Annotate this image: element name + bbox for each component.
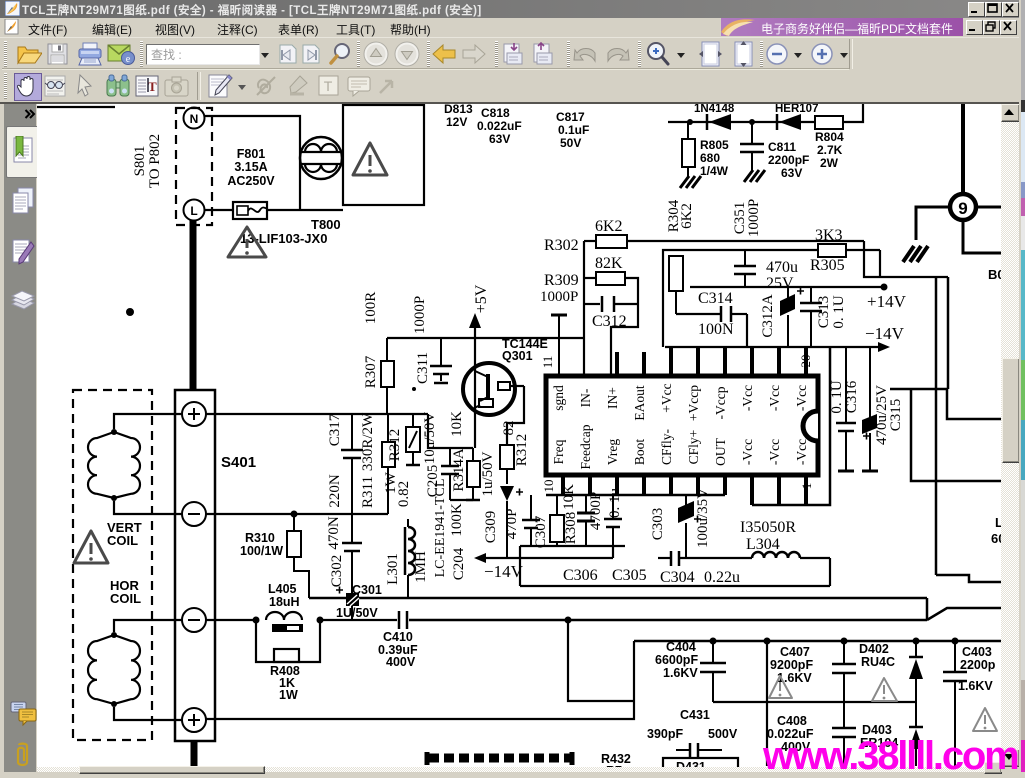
wire -rail y514 <box>206 513 388 515</box>
wire node9 right <box>976 206 1001 209</box>
svg-text:-Vcc: -Vcc <box>767 439 782 465</box>
diode 1N4148 <box>694 103 735 130</box>
node N terminal <box>184 108 205 129</box>
svg-text:100/1W: 100/1W <box>240 544 283 558</box>
wire y575 branch <box>936 575 1001 582</box>
svg-text:0.1uF: 0.1uF <box>558 123 589 137</box>
wire +rail y414 <box>206 413 428 415</box>
svg-text:2W: 2W <box>820 156 839 170</box>
ground (C811) <box>744 170 765 182</box>
fuse F801 <box>233 202 268 219</box>
junction <box>710 638 717 645</box>
wire inner box left <box>663 250 818 347</box>
undo <box>573 45 598 63</box>
-14V arrow (below IC) <box>474 546 613 581</box>
svg-text:1N4148: 1N4148 <box>694 104 735 115</box>
svg-text:C818: C818 <box>481 106 510 120</box>
svg-text:-Vcc: -Vcc <box>767 385 782 411</box>
svg-text:1.6KV: 1.6KV <box>958 679 993 693</box>
print <box>77 42 103 66</box>
svg-text:+5V: +5V <box>473 284 490 313</box>
svg-text:Boot: Boot <box>632 439 647 466</box>
svg-text:2200pF: 2200pF <box>768 153 809 167</box>
svg-text:-Vcc: -Vcc <box>740 439 755 465</box>
wire to node 9 <box>961 104 965 195</box>
capacitor C302 470N <box>326 516 362 593</box>
pages <box>11 187 35 215</box>
vertical deflection coil <box>88 429 140 501</box>
+14V rail <box>690 284 907 312</box>
svg-text:C408: C408 <box>777 714 807 728</box>
svg-text:R302: R302 <box>544 237 579 254</box>
capacitor C315 470u/25V <box>862 347 904 471</box>
svg-text:63V: 63V <box>781 166 802 180</box>
svg-text:6K2: 6K2 <box>595 218 623 235</box>
svg-text:0.022uF: 0.022uF <box>477 119 522 133</box>
svg-text:C309: C309 <box>483 511 499 544</box>
svg-text:sgnd: sgnd <box>551 385 566 411</box>
svg-text:R307: R307 <box>363 355 379 388</box>
wire node9 down-right <box>963 220 1001 253</box>
resistor 6K2 (R302 row) <box>584 218 864 248</box>
wire y607 to edge <box>927 608 1001 620</box>
wire jog y389 <box>890 389 1001 419</box>
resistor R310 100/1W <box>240 514 309 598</box>
zoom mag <box>645 41 671 67</box>
svg-text:4700P: 4700P <box>588 492 604 530</box>
label S801 TO P802 <box>132 134 163 188</box>
S401 pin + <box>182 402 206 426</box>
resistor R314A 10K <box>449 411 480 500</box>
svg-text:C315: C315 <box>888 399 904 432</box>
svg-text:C407: C407 <box>780 645 810 659</box>
svg-text:F801: F801 <box>237 147 266 161</box>
svg-text:Feedcap: Feedcap <box>578 424 593 469</box>
svg-text:-Vcc: -Vcc <box>740 385 755 411</box>
svg-text:100N: 100N <box>698 321 734 338</box>
connector S401 strip <box>175 390 215 741</box>
labels C306 C305 C304 0.22u <box>563 567 740 586</box>
svg-text:2200p: 2200p <box>960 658 996 672</box>
capacitor C307 470P <box>504 495 549 548</box>
search mag <box>329 42 353 66</box>
svg-text:400V: 400V <box>386 655 416 669</box>
wire fuse to degauss box <box>267 209 343 211</box>
svg-text:0. 1U: 0. 1U <box>831 295 847 329</box>
svg-text:C311: C311 <box>415 352 431 384</box>
capacitor C312 <box>584 296 638 376</box>
wire R804 up <box>843 104 863 122</box>
IC top pin stubs <box>617 347 806 376</box>
svg-text:IN-: IN- <box>578 388 593 407</box>
svg-text:-Vcc: -Vcc <box>794 385 809 411</box>
svg-text:25V: 25V <box>766 275 794 292</box>
svg-text:82: 82 <box>501 421 517 436</box>
label C351 1000P rotated <box>732 199 762 237</box>
svg-text:680: 680 <box>700 151 720 165</box>
svg-text:20: 20 <box>798 355 813 368</box>
save <box>47 43 68 65</box>
svg-text:9: 9 <box>958 199 967 218</box>
op-amp/deflection IC U301 body <box>546 376 818 475</box>
svg-text:C410: C410 <box>383 630 413 644</box>
svg-text:Freq: Freq <box>551 439 566 464</box>
junction <box>253 617 260 624</box>
resistor R312 1W 0.82 <box>383 414 420 507</box>
svg-text:R311: R311 <box>360 476 376 508</box>
svg-text:-Vcc: -Vcc <box>794 439 809 465</box>
svg-text:L405: L405 <box>268 582 297 596</box>
IC bottom pin stubs <box>563 475 806 505</box>
capacitor C351 <box>734 250 756 287</box>
label R408 1K 1W <box>270 664 300 702</box>
svg-text:100u/35V: 100u/35V <box>695 488 711 548</box>
svg-text:1/4W: 1/4W <box>700 164 729 178</box>
svg-text:470N: 470N <box>326 516 342 550</box>
svg-text:C306: C306 <box>563 567 598 584</box>
resistor R311 330R/2W <box>360 412 395 514</box>
svg-text:CFly+: CFly+ <box>686 430 701 465</box>
wire Q301 emitter to R312 <box>507 386 524 445</box>
connector S801 dashed box <box>176 108 212 225</box>
up round <box>363 41 390 68</box>
wire mid rail y702 <box>713 701 916 703</box>
svg-text:N: N <box>190 112 199 126</box>
svg-text:C304: C304 <box>660 569 695 586</box>
highlighter (disabled) <box>286 74 309 97</box>
resistor R804 2.7K 2W <box>815 116 844 170</box>
ground (R805) <box>680 176 701 188</box>
label HOR COIL <box>110 578 141 606</box>
capacitor C317 220N <box>327 413 363 543</box>
degauss circuit box <box>343 105 424 205</box>
svg-text:COIL: COIL <box>110 591 141 606</box>
svg-text:T800: T800 <box>311 217 341 232</box>
svg-text:+Vccp: +Vccp <box>686 385 701 421</box>
svg-text:−14V: −14V <box>865 324 905 343</box>
thick dashed bus <box>427 752 573 765</box>
wire feed right-margin inner <box>879 250 881 277</box>
resistor R307 100R <box>363 292 394 414</box>
diode HER107 <box>775 103 818 130</box>
capacitor C311 1000P <box>412 296 452 384</box>
IC pin labels bottom <box>551 424 809 469</box>
resistor R305 3K3 <box>810 227 880 274</box>
wire L to fuse <box>204 209 233 211</box>
svg-text:10: 10 <box>541 480 556 493</box>
wire return y598 <box>309 597 927 600</box>
camera (disabled) <box>164 75 189 97</box>
capacitor C316 0.1U <box>829 347 860 471</box>
attach (disabled) <box>254 74 278 98</box>
svg-text:S801: S801 <box>132 146 148 177</box>
wire x927 stub <box>926 598 929 620</box>
node L terminal <box>184 200 205 221</box>
capacitor C403 2200p 1.6KV <box>943 641 996 766</box>
svg-text:R309: R309 <box>544 272 579 289</box>
wire to C410 <box>320 619 397 621</box>
wire block left edge <box>519 546 521 586</box>
label F801 3.15A AC250V <box>227 147 275 188</box>
junction <box>565 617 572 624</box>
svg-text:9200pF: 9200pF <box>770 658 813 672</box>
resistor 82K (R309 row) <box>584 255 638 304</box>
svg-text:1u/50V: 1u/50V <box>480 451 496 496</box>
bookmarks (selected) <box>6 126 38 178</box>
textbox (disabled) <box>317 74 340 97</box>
svg-text:T: T <box>324 78 333 94</box>
back <box>432 44 457 64</box>
svg-text:0.22u: 0.22u <box>704 569 740 586</box>
wire drop from junction <box>568 620 634 701</box>
resistor R304 <box>669 256 683 314</box>
wire below-IC rail <box>546 494 725 497</box>
snapshot1 <box>501 41 528 67</box>
svg-text:330R/2W: 330R/2W <box>360 412 376 471</box>
inductor L301 1MH <box>385 519 429 598</box>
capacitor C301 1U/50V <box>336 587 359 621</box>
junction <box>749 119 755 125</box>
svg-text:R305: R305 <box>810 257 845 274</box>
svg-text:C312: C312 <box>592 313 627 330</box>
svg-text:50V: 50V <box>560 136 581 150</box>
down round <box>394 41 421 68</box>
resistor R312 82 <box>500 421 530 485</box>
wire pin1-3 bracket <box>752 347 830 505</box>
wire feed right-margin outer <box>864 241 948 277</box>
resistor R805 680 1/4W <box>682 122 729 178</box>
zoom out <box>766 43 789 66</box>
svg-text:C431: C431 <box>680 708 710 722</box>
svg-text:2.7K: 2.7K <box>817 143 843 157</box>
warning triangle (D402) <box>872 678 897 701</box>
junction <box>913 638 920 645</box>
forward <box>461 44 486 64</box>
svg-text:C317: C317 <box>327 413 343 446</box>
svg-text:C301: C301 <box>352 583 382 597</box>
svg-text:L304: L304 <box>746 536 780 553</box>
svg-text:C307: C307 <box>533 515 549 548</box>
svg-text:RU4C: RU4C <box>861 655 895 669</box>
svg-text:R314A: R314A <box>451 448 467 492</box>
svg-text:R312: R312 <box>514 434 530 467</box>
signature <box>11 238 36 266</box>
svg-text:C314: C314 <box>698 290 733 307</box>
transistor Q301 TC144E <box>463 328 524 448</box>
binoculars <box>105 73 131 99</box>
svg-text:60: 60 <box>991 531 1001 546</box>
svg-text:470u: 470u <box>766 259 798 276</box>
open <box>16 43 42 65</box>
svg-text:e: e <box>126 54 131 65</box>
ground (node 9) <box>903 246 928 262</box>
junction R310 <box>291 511 298 518</box>
svg-text:TO P802: TO P802 <box>147 134 163 188</box>
svg-text:0. 1U: 0. 1U <box>829 380 845 414</box>
mail <box>107 43 135 66</box>
label L405 18uH <box>268 582 300 609</box>
label R432 <box>601 752 631 778</box>
hand (selected) <box>14 73 42 101</box>
junction <box>841 638 848 645</box>
wire long vertical x767 <box>766 641 768 766</box>
wire hor coil to S401 <box>114 620 182 720</box>
glasses page <box>43 74 67 98</box>
junction <box>317 617 324 624</box>
svg-text:T: T <box>148 79 157 94</box>
svg-text:C303: C303 <box>650 508 666 541</box>
paperclip <box>14 742 32 768</box>
svg-text:10K: 10K <box>561 484 577 510</box>
svg-text:1000P: 1000P <box>412 296 428 334</box>
svg-text:AC250V: AC250V <box>227 174 275 188</box>
inductor L405 18uH with R408 loop <box>256 612 320 662</box>
redo <box>605 45 630 63</box>
stray dot small <box>412 387 416 391</box>
label 100K C204 rotated <box>449 503 467 580</box>
capacitor C404 6600pF 1.6KV <box>655 640 726 702</box>
svg-text:IN+: IN+ <box>605 387 620 409</box>
diode D403 ER104 <box>860 702 923 766</box>
nav last <box>300 42 325 66</box>
svg-text:18uH: 18uH <box>269 595 300 609</box>
svg-text:C312A: C312A <box>760 294 776 338</box>
label 470u 25V <box>766 259 798 292</box>
svg-text:C316: C316 <box>844 380 860 413</box>
svg-text:HER107: HER107 <box>775 104 818 115</box>
svg-text:L301: L301 <box>385 553 401 585</box>
svg-text:1MH: 1MH <box>413 551 429 583</box>
svg-text:C817: C817 <box>556 110 585 124</box>
svg-text:C403: C403 <box>962 645 992 659</box>
diode D431 box <box>663 758 738 774</box>
wire bottom rail y641 <box>634 640 1001 643</box>
resistor R308 10K <box>550 484 579 546</box>
wire y481 branch <box>911 389 1001 481</box>
diode D402 RU4C <box>859 641 923 702</box>
wire N to line-filter <box>204 116 300 209</box>
label D813 12V <box>444 102 473 129</box>
capacitor C431 390pF 500V <box>647 708 738 757</box>
junction <box>764 638 771 645</box>
node 9 <box>950 194 976 220</box>
wire diode rail <box>668 121 815 123</box>
wire main horizontal y620 <box>409 619 927 622</box>
svg-text:Q301: Q301 <box>502 349 533 363</box>
svg-text:3.15A: 3.15A <box>234 160 267 174</box>
svg-text:C302: C302 <box>329 555 345 588</box>
svg-text:L: L <box>190 204 197 218</box>
-14V rail <box>665 324 905 352</box>
zoom in <box>811 43 834 66</box>
svg-text:12V: 12V <box>446 115 467 129</box>
svg-text:C313: C313 <box>816 296 832 329</box>
svg-text:10u/50V: 10u/50V <box>422 412 438 465</box>
pen tool <box>207 73 233 99</box>
svg-text:500V: 500V <box>708 727 738 741</box>
IC pin numbers <box>540 355 814 493</box>
wire R302/R309 link <box>583 241 585 376</box>
fit page <box>731 41 756 68</box>
svg-text:100K: 100K <box>449 503 465 537</box>
capacitor C811 2200pF 63V <box>740 122 809 180</box>
junction <box>952 638 959 645</box>
svg-text:D402: D402 <box>859 642 889 656</box>
label VERT COIL <box>107 520 142 548</box>
find box <box>146 44 260 65</box>
line filter T800 <box>300 137 342 179</box>
svg-text:D431: D431 <box>676 760 706 767</box>
svg-text:−14V: −14V <box>484 562 524 581</box>
comments bubbles <box>10 700 38 728</box>
IT select <box>135 74 160 98</box>
warning triangle (C407) <box>769 676 792 698</box>
+5V rail wire <box>387 337 584 339</box>
wire y586 <box>520 585 830 587</box>
svg-text:EAout: EAout <box>632 385 647 420</box>
svg-text:6600pF: 6600pF <box>655 653 698 667</box>
svg-text:C811: C811 <box>768 140 796 154</box>
junction <box>687 119 693 125</box>
svg-text:R310: R310 <box>245 531 275 545</box>
capacitor 4700P <box>577 492 604 546</box>
diag arrow (disabled) <box>377 76 397 96</box>
svg-text:B0: B0 <box>988 267 1001 282</box>
label C817 0.1uF 50V <box>556 110 589 150</box>
wire vertical V1 <box>935 277 938 575</box>
svg-text:S401: S401 <box>221 454 256 471</box>
svg-text:0. 1u: 0. 1u <box>607 488 623 519</box>
S401 pin - <box>182 502 206 526</box>
inductor L304 I35050R <box>740 519 830 586</box>
svg-text:OUT: OUT <box>713 437 728 465</box>
warning triangle (fuse) <box>228 227 266 257</box>
svg-text:6K2: 6K2 <box>679 203 695 229</box>
svg-text:63V: 63V <box>489 132 510 146</box>
svg-text:1.6KV: 1.6KV <box>663 666 698 680</box>
svg-text:1U/50V: 1U/50V <box>336 606 378 620</box>
label R304 6K2 rotated <box>666 199 695 232</box>
label L604 (cut) <box>991 515 1005 546</box>
capacitor C408 0.022uF 400V <box>767 702 856 766</box>
S401 pin + (lower) <box>182 708 206 732</box>
svg-text:220N: 220N <box>327 474 343 508</box>
svg-text:3K3: 3K3 <box>815 227 843 244</box>
svg-text:10K: 10K <box>449 411 465 437</box>
capacitor C205 10u/50V <box>422 412 459 500</box>
capacitor C312A <box>760 287 804 347</box>
svg-text:COIL: COIL <box>107 533 138 548</box>
svg-text:I35050R: I35050R <box>740 519 796 536</box>
stray dot <box>126 308 134 316</box>
wire node9 left to ground <box>916 207 950 240</box>
svg-text:C204: C204 <box>451 547 467 580</box>
svg-text:+14V: +14V <box>867 292 907 311</box>
S401 pin - (lower) <box>182 608 206 632</box>
capacitor C313 0.1U <box>800 287 847 347</box>
svg-text:R308: R308 <box>563 512 579 545</box>
svg-text:C305: C305 <box>612 567 647 584</box>
wire hor-coil line <box>206 619 256 621</box>
wire + return y719 <box>206 641 634 719</box>
svg-text:1000P: 1000P <box>540 289 578 305</box>
horizontal deflection coil <box>88 632 140 707</box>
svg-text:11: 11 <box>540 356 555 369</box>
label C818 0.022uF 63V <box>477 106 522 146</box>
collapse chevron <box>24 109 36 119</box>
svg-text:+Vcc: +Vcc <box>659 383 674 412</box>
svg-text:Vreg: Vreg <box>605 439 620 465</box>
